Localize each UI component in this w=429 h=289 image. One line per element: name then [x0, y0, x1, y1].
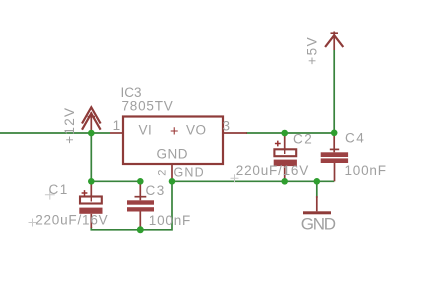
- junction dots: [88, 130, 338, 234]
- C2 top pin: [284, 133, 286, 149]
- C2 value origin cross: [231, 174, 239, 182]
- capacitor C1 polarized electrolytic 220uF/16V: [29, 181, 109, 228]
- ground pin: [316, 196, 318, 211]
- svg-text:220uF/16V: 220uF/16V: [236, 163, 309, 178]
- capacitor C3 ceramic 100nF: [127, 181, 191, 230]
- svg-text:VI: VI: [139, 123, 153, 138]
- svg-text:GND: GND: [301, 215, 336, 234]
- wire GND stub to ground symbol: [316, 181, 318, 198]
- svg-text:100nF: 100nF: [149, 213, 191, 228]
- pin 2 (GND) of IC3: [157, 164, 173, 180]
- junction ground symbol tap: [314, 178, 321, 185]
- C4 top plate: [321, 152, 348, 157]
- C2 positive plate (hollow): [274, 149, 296, 156]
- junction GND at pin 2: [169, 178, 176, 185]
- svg-text:2: 2: [157, 170, 169, 176]
- C3 top plate: [127, 200, 154, 204]
- pin 3 (VO) of IC3: [223, 118, 248, 133]
- C2 negative plate (filled): [274, 160, 297, 167]
- C1 value origin cross: [29, 219, 37, 227]
- junction C2 bottom: [281, 178, 288, 185]
- wire GND rail: [172, 180, 334, 182]
- supply symbol +12V (double chevron arrow): [82, 107, 101, 133]
- svg-text:+5V: +5V: [305, 36, 320, 65]
- capacitor C2 polarized electrolytic 220uF/16V: [231, 132, 314, 183]
- ground bar: [303, 211, 331, 214]
- wire ground return C1/C3 bottoms up to GND node: [91, 181, 172, 230]
- C1 bottom pin: [90, 214, 92, 228]
- C4 bottom plate: [321, 158, 348, 163]
- C2 bottom pin: [284, 166, 286, 181]
- wire VIN drop to C1: [90, 133, 92, 181]
- svg-text:7805TV: 7805TV: [122, 99, 174, 114]
- C3 bottom plate: [127, 207, 154, 211]
- svg-text:+: +: [170, 124, 178, 140]
- wire VIN C1 to C3: [91, 180, 140, 182]
- svg-text:100nF: 100nF: [345, 163, 387, 178]
- C1 polarity mark +: [82, 190, 88, 196]
- C4 top pin: [333, 133, 335, 152]
- C4 bottom pin: [334, 163, 336, 181]
- wire +5V drop: [333, 50, 335, 133]
- C1 positive plate (hollow): [80, 197, 102, 204]
- C3 bottom pin: [139, 212, 141, 230]
- C1 origin cross: [45, 190, 55, 200]
- junction VOUT / +5V / C4 tap: [331, 130, 338, 137]
- junction VIN / C1 tap: [88, 130, 95, 137]
- junction C1 top: [88, 178, 95, 185]
- C1 top pin: [90, 181, 92, 196]
- svg-text:C1: C1: [49, 182, 69, 197]
- svg-text:1: 1: [113, 118, 121, 133]
- wire VOUT rail: [246, 132, 334, 134]
- junction C3 bottom: [137, 226, 144, 233]
- capacitor C4 ceramic 100nF: [321, 131, 387, 182]
- C2 polarity mark +: [275, 141, 281, 147]
- svg-text:IC3: IC3: [121, 85, 142, 100]
- svg-text:C2: C2: [293, 132, 313, 147]
- IC3 body outline: [123, 117, 223, 165]
- C1 negative plate (filled): [79, 208, 102, 214]
- svg-text:C3: C3: [146, 183, 166, 198]
- ground symbol GND: [301, 196, 336, 234]
- wire VIN rail from left edge to IC pin 1: [0, 132, 110, 134]
- IC IC3 7805TV voltage regulator: [121, 85, 224, 164]
- svg-text:220uF/16V: 220uF/16V: [35, 213, 108, 228]
- pin 1 (VI) of IC3: [110, 118, 123, 133]
- svg-text:C4: C4: [345, 131, 365, 146]
- supply symbol +5V (arrow): [325, 32, 343, 51]
- junction VOUT / C2 tap: [281, 130, 288, 137]
- svg-text:GND: GND: [157, 146, 189, 161]
- C3 top pin: [139, 181, 141, 200]
- svg-text:VO: VO: [186, 123, 207, 138]
- svg-text:3: 3: [223, 118, 231, 133]
- svg-text:+12V: +12V: [62, 107, 77, 144]
- svg-text:GND: GND: [174, 166, 205, 180]
- junction C3 top: [137, 178, 144, 185]
